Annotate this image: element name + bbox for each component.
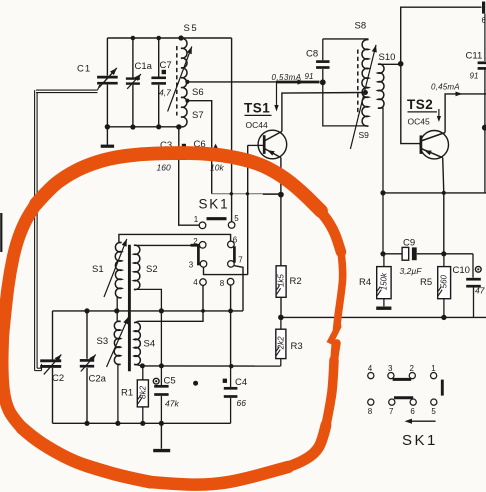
capacitor C11 [466,14,486,193]
switch SK1 position diagram contact 8 [368,399,374,416]
svg-text:S5: S5 [184,23,199,34]
capacitor C1 variable [77,38,118,127]
svg-text:R5: R5 [420,277,432,288]
annotation orange marker circle [2,153,347,485]
svg-text:91: 91 [470,72,479,81]
svg-text:C4: C4 [235,377,247,388]
svg-text:5: 5 [431,407,436,416]
capacitor C7 4.7 [151,38,171,127]
node dots bias line [380,251,446,256]
node stray junction dot [193,381,198,386]
switch SK1 wiper bridge 6-7 [233,246,236,262]
svg-text:5: 5 [234,214,239,223]
svg-text:S3: S3 [97,336,109,347]
node emitter junction [278,192,284,198]
capacitor C6 10k [194,139,225,194]
wire S6 tap to C8 node (0,53mA line) [185,79,319,84]
wire emitter bias node line [383,253,473,255]
resistor R4 150k [359,254,391,306]
switch SK1 contact 5 [228,214,239,229]
ground at bottom [153,423,170,450]
svg-text:4: 4 [368,364,373,373]
svg-text:6: 6 [233,235,238,244]
label TS2 [407,97,437,127]
inductor S8-S9 [355,21,370,140]
svg-text:2: 2 [410,364,415,373]
wire S1 top to contact 6 [119,234,231,242]
svg-text:47k: 47k [165,399,179,409]
svg-text:TS1: TS1 [244,101,270,116]
label TS1 [244,101,272,131]
variable arrow through S8 [350,45,376,149]
wire C8 node to S9 bottom [323,82,367,126]
wire TS2 emitter down [443,158,444,254]
svg-text:R2: R2 [290,276,302,287]
svg-text:1: 1 [194,215,199,224]
wire supply top right [401,7,482,64]
wire TS1 collector to S9 tap [282,93,366,132]
variable core arrow through S3 [107,317,129,367]
current arrow into TS2 [437,109,441,122]
wire C3 to SK1 contact 1 [179,160,199,225]
wire contact 4 to S4 top [138,286,203,322]
capacitor C4 66 [223,366,247,423]
svg-text:8: 8 [368,407,373,416]
wire contact 7 to rail [234,266,243,311]
switch SK1 position diagram contact 4 [368,364,374,379]
inductor S2 [134,245,158,289]
svg-text:TS2: TS2 [407,97,433,112]
transistor TS1 OC44 [248,130,287,159]
svg-text:C2a: C2a [89,374,107,385]
wire bottom rail [53,422,231,424]
svg-text:S8: S8 [355,21,367,32]
svg-text:C10: C10 [453,265,470,276]
node dots on rail y311 [84,308,233,313]
svg-text:66: 66 [237,398,247,408]
svg-text:SK1: SK1 [402,432,438,449]
switch SK1 contact 7 [228,255,244,267]
svg-text:0,45mA: 0,45mA [431,82,460,91]
svg-text:3: 3 [189,260,194,269]
wire S10 junction to TS2 base [401,64,420,144]
svg-text:3,2µF: 3,2µF [400,266,423,276]
node dots on group bottom rail [105,124,182,130]
switch SK1 wiper mark [441,380,444,396]
svg-text:91: 91 [305,72,314,81]
wire R2 bottom to rail [280,297,282,317]
resistor R2 1k5 [276,266,302,298]
wire TS1 base column [247,145,249,274]
resistor R3 2k2 [276,317,303,366]
svg-text:S9: S9 [359,130,370,140]
node dots on supply rail [278,315,446,321]
resistor R1 8k2 [121,366,148,423]
transformer core [128,245,131,371]
switch SK1 position diagram contact 7 [389,399,395,416]
inductor S5-S6-S7 tapped coil [177,23,204,127]
svg-text:8: 8 [220,279,225,288]
capacitor C2a trimmer [80,311,107,423]
resistor R5 560 [420,254,451,318]
capacitor C1a trimmer [126,38,153,127]
switch SK1 bridge 3-2 [393,378,412,381]
svg-text:C8: C8 [306,49,318,60]
svg-text:160: 160 [157,163,171,173]
svg-text:C1: C1 [77,64,91,75]
svg-text:OC44: OC44 [246,120,268,130]
node dots bottom rail [84,421,164,426]
wire common rail y311 [53,310,244,312]
svg-text:4: 4 [193,278,198,287]
wire antenna double-line from C1 to C2 [35,85,100,371]
node S9 tap [363,90,368,95]
wire emitter node line to right edge [380,190,486,195]
svg-text:2k2: 2k2 [276,336,285,350]
wire S2 bottom down to C5 node [134,289,162,366]
svg-text:7: 7 [389,407,394,416]
capacitor C10 47 [453,254,485,318]
wire supply rail y317 [281,316,486,318]
label current 0,53mA [272,72,314,82]
svg-text:S2: S2 [146,264,158,275]
transistor TS2 OC45 [420,131,448,159]
node dots on y366 line [140,363,234,368]
svg-text:150k: 150k [380,272,389,290]
switch SK1 position diagram contact 1 [431,364,437,379]
wire node line y=366 [142,365,280,367]
label SK1 bottom [402,432,438,449]
wire TS2 collector to right edge [445,92,486,133]
svg-text:C9: C9 [403,238,415,249]
wire TS1 emitter down to R2 [280,158,282,266]
capacitor C9 3,2uF electrolytic [400,238,423,277]
svg-text:C1a: C1a [135,61,153,72]
switch SK1 bridge 7-6 [394,396,413,399]
wire group bottom rail [107,126,178,128]
svg-text:C5: C5 [164,375,176,386]
ground bar under R4 [376,307,391,310]
svg-text:S6: S6 [192,87,204,98]
svg-text:4,7: 4,7 [159,88,171,98]
wire contact 3 to TS1 base column [204,267,248,274]
capacitor C2 variable [40,311,64,423]
switch SK1 rotation arrow [405,419,436,424]
wire faint bus y=194 [212,192,281,195]
svg-text:1k5: 1k5 [277,274,286,287]
svg-text:S1: S1 [92,264,104,275]
svg-text:R3: R3 [291,341,303,352]
node junction dots on top rail [131,35,184,40]
switch SK1 position diagram contact 5 [431,399,437,416]
label current 0,45mA [431,72,478,92]
svg-text:47: 47 [475,286,485,296]
wire S7 tap to C6 [185,99,211,149]
wire top rail from C1 to SK1 contact 5 column [107,37,231,39]
svg-text:10k: 10k [210,163,224,173]
svg-text:3: 3 [388,364,393,373]
switch SK1 contact 1 [194,215,206,229]
svg-text:OC45: OC45 [408,117,430,127]
inductor S3 [97,311,121,423]
inductor S10 [378,52,401,254]
current arrow into TS1 [274,82,278,111]
svg-text:SK1: SK1 [199,197,230,212]
svg-text:6: 6 [410,407,415,416]
svg-text:C7: C7 [160,60,172,71]
svg-text:C2: C2 [52,373,64,384]
capacitor C3 160 [157,127,187,173]
node S10 top junction [398,61,404,67]
wire cut at left edge [0,213,2,252]
switch SK1 contact 2 [193,237,206,248]
svg-text:R4: R4 [359,277,371,288]
svg-text:S4: S4 [144,339,156,350]
svg-text:1: 1 [431,364,436,373]
switch SK1 position diagram contact 6 [410,399,416,416]
inductor S1 [92,242,122,310]
switch SK1 contact 3 [189,260,207,269]
capacitor C5 47k [153,366,179,423]
switch SK1 contact 4 [193,278,206,287]
svg-text:C11: C11 [466,51,483,62]
capacitor C8 [306,39,330,85]
svg-text:560: 560 [440,274,449,288]
wire C8 top to S8 top [323,38,369,40]
svg-text:0,53mA: 0,53mA [272,73,302,82]
switch SK1 contact 6 [228,235,238,247]
switch SK1 position diagram contact 2 [409,364,415,379]
svg-text:7: 7 [238,255,243,264]
switch SK1 position diagram contact 3 [388,364,394,379]
variable core arrow through S1 [104,239,127,297]
switch SK1 wiper bridge 2-3 [191,245,201,264]
terminal bar top right [482,2,486,26]
switch SK1 contact 8 [220,278,234,288]
ground under C1 group [101,127,114,146]
svg-text:8k2: 8k2 [138,385,147,398]
svg-text:R1: R1 [121,388,133,399]
svg-text:S10: S10 [379,52,396,63]
label SK1 switch [199,197,230,212]
inductor S4 [134,321,155,366]
wire S2 top to contact 2 [137,244,199,246]
wire contact 5 to top rail [231,38,233,222]
svg-text:S7: S7 [192,110,204,121]
switch SK1 wiper bar 1-5 [207,217,227,220]
wire contact 8 down [230,285,232,366]
variable core arrow through S5 [168,47,192,112]
